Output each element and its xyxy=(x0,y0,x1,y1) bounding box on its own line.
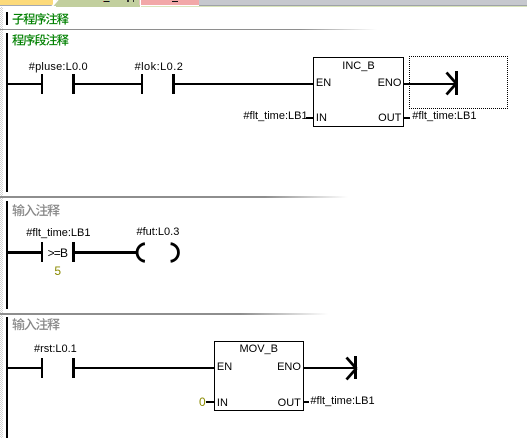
network 1 comment 程序段注释 xyxy=(12,34,70,49)
IN operand #flt_time:LB1 xyxy=(243,111,307,122)
wire: contact1 to contact2 xyxy=(75,83,141,86)
separator 3 xyxy=(0,313,335,315)
OUT operand #flt_time:LB1 xyxy=(404,117,410,119)
POU comment text 子程序注释 xyxy=(12,13,70,28)
tab text mark on pink tab xyxy=(172,1,178,3)
network 3 comment 输入注释 xyxy=(12,318,61,333)
compare contact >=B xyxy=(41,242,44,262)
POU comment edit bar xyxy=(6,12,9,25)
dotted selection box xyxy=(409,56,509,109)
wire: contact to MOV_B box xyxy=(75,367,214,370)
network 1 left power rail xyxy=(6,33,9,193)
continuation arrow xyxy=(354,356,357,379)
contact #lok:L0.2 xyxy=(141,74,144,94)
network 2 comment 输入注释 xyxy=(12,204,61,219)
box INC_B xyxy=(313,57,405,127)
white diagonal between yellow and green tabs xyxy=(50,0,60,7)
wire: contact2 to INC_B box xyxy=(175,83,313,86)
wire ENO to arrow xyxy=(404,83,455,86)
network 3 left power rail xyxy=(6,317,9,438)
wire: contact to coil xyxy=(75,251,137,254)
tab bar: green tab with slanted left edge xyxy=(56,0,140,7)
contact #pluse:L0.0 xyxy=(41,74,44,94)
wire: rail to contact 1 xyxy=(8,83,40,86)
separator 1 xyxy=(0,29,380,31)
coil #fut:L0.3 xyxy=(137,227,180,238)
tab bar: yellow tab xyxy=(0,0,53,5)
tab bar: gray rest xyxy=(199,0,527,5)
network 2 left power rail xyxy=(6,201,9,309)
wire: rail to compare contact xyxy=(8,251,40,254)
tab text marks on green tab xyxy=(104,1,109,3)
box MOV_B xyxy=(214,341,304,411)
continuation arrow xyxy=(455,71,458,94)
wire ENO to arrow xyxy=(304,367,355,370)
IN constant 0 xyxy=(199,396,206,408)
constant 5 xyxy=(54,265,61,277)
tab bar: pink tab xyxy=(141,0,199,5)
left hatched margin strip xyxy=(0,7,3,438)
OUT operand #flt_time:LB1 xyxy=(304,401,310,403)
contact #rst:L0.1 xyxy=(34,344,77,355)
separator 2 xyxy=(0,196,355,198)
operand label #flt_time:LB1 xyxy=(26,228,90,239)
